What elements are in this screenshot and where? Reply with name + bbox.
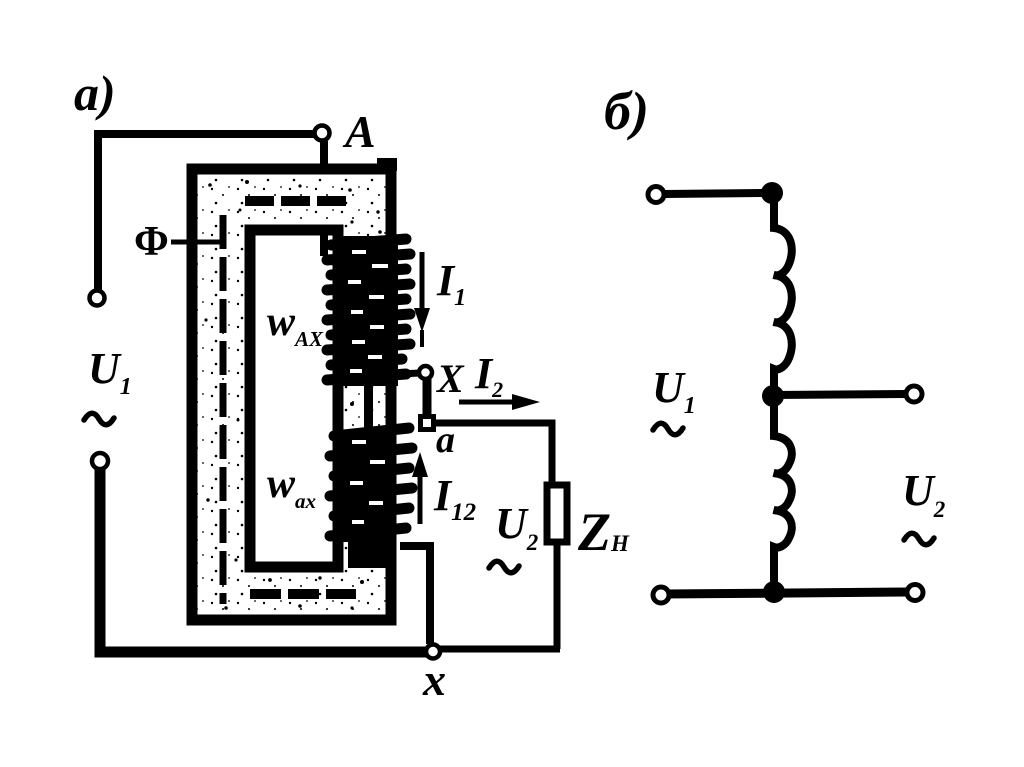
svg-text:wax: wax xyxy=(267,461,316,513)
wire from winding w_ax bottom to terminal x xyxy=(400,546,430,644)
wire bottom left xyxy=(100,466,427,652)
svg-text:U1: U1 xyxy=(652,363,696,419)
flux dashed path bottom yoke xyxy=(250,589,356,599)
terminal A xyxy=(315,126,330,141)
scan speckles on core xyxy=(204,180,385,610)
terminal x xyxy=(426,645,440,659)
svg-text:A: A xyxy=(342,106,376,157)
load Z_H xyxy=(547,485,567,542)
svg-text:U1: U1 xyxy=(88,344,132,400)
magnetic core xyxy=(188,158,398,626)
junction bottom (b) xyxy=(763,581,785,603)
wire top from U1 top terminal to terminal A xyxy=(98,134,316,291)
svg-text:б): б) xyxy=(604,81,649,141)
junction top (b) xyxy=(761,182,783,204)
vertical winding streak between coils xyxy=(364,375,373,431)
svg-text:U2: U2 xyxy=(902,466,945,522)
svg-text:x: x xyxy=(422,654,446,705)
terminal output tap (b) xyxy=(906,386,922,402)
tap junction (b) xyxy=(762,385,784,407)
terminal X xyxy=(419,366,432,379)
arrow I2 xyxy=(459,394,540,410)
svg-text:ZH: ZH xyxy=(577,502,630,562)
svg-text:Φ: Φ xyxy=(134,219,169,265)
wire a to load Z_H xyxy=(434,423,552,485)
svg-text:U2: U2 xyxy=(495,499,538,555)
terminal U1 top xyxy=(90,291,105,306)
winding lower (b) xyxy=(774,404,792,592)
svg-text:X: X xyxy=(435,356,465,401)
svg-text:a): a) xyxy=(74,65,116,121)
terminal input top (b) xyxy=(648,187,664,203)
winding upper (b) xyxy=(774,198,792,396)
node a (square) xyxy=(421,417,434,430)
wire input top (b) xyxy=(664,193,766,194)
wire load to bottom xyxy=(554,545,561,649)
wire winding to terminal X xyxy=(400,373,420,374)
wire bottom (b) xyxy=(664,592,910,594)
flux dashed path top yoke xyxy=(245,196,346,206)
svg-text:I12: I12 xyxy=(433,471,476,526)
flux dashed path vertical (left limb) xyxy=(220,215,227,604)
terminal bottom right (b) xyxy=(907,585,923,601)
terminal bottom left (b) xyxy=(653,587,669,603)
terminal U1 bottom xyxy=(92,453,108,469)
arrow I1 xyxy=(414,252,430,347)
wire from A down into winding xyxy=(320,141,328,256)
svg-text:I1: I1 xyxy=(436,256,466,311)
winding w_ax (lower coil) xyxy=(330,428,412,542)
winding w_ax end blob over window edge xyxy=(348,540,392,568)
wire tap to output terminal (b) xyxy=(773,394,906,395)
winding w_AX (upper coil) xyxy=(327,236,410,386)
svg-text:wAX: wAX xyxy=(267,299,324,351)
wire bottom right (x to load) xyxy=(438,646,560,653)
wire X to a junction xyxy=(423,379,432,417)
arrow I12 xyxy=(412,452,428,524)
svg-text:I2: I2 xyxy=(474,349,503,402)
